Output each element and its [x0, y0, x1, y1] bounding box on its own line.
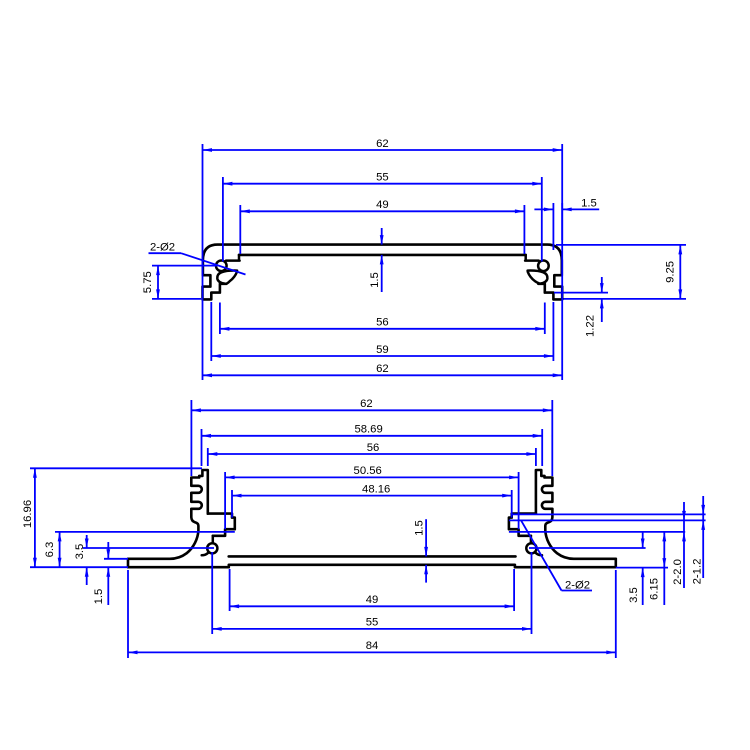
bottom profile right boss staircase: [509, 514, 536, 536]
top profile outer outline: [203, 245, 563, 300]
top profile left screw hole (2-Ø2): [216, 261, 227, 272]
svg-text:49: 49: [376, 199, 389, 211]
svg-text:84: 84: [366, 640, 379, 652]
dim 62 top: [203, 149, 563, 151]
dim 50.56: [225, 476, 518, 478]
svg-text:50.56: 50.56: [354, 465, 382, 477]
label 2-Ø2 bottom leader: [521, 520, 562, 590]
bottom profile left boss staircase: [208, 514, 235, 536]
svg-text:62: 62: [360, 398, 373, 410]
dim 50.56 ext: [224, 472, 226, 529]
dim 9.25 right: [679, 245, 681, 299]
svg-text:55: 55: [376, 172, 389, 184]
svg-text:2-1.2: 2-1.2: [692, 559, 704, 585]
svg-text:6.3: 6.3: [44, 542, 56, 558]
dim 5.75 left: [157, 266, 159, 299]
dim 2-2.0 right: [683, 502, 685, 588]
dim 1.5 plate: [381, 228, 383, 245]
dim 2-2.0 ext: [509, 519, 706, 521]
dim 55 top: [223, 183, 542, 185]
svg-text:9.25: 9.25: [665, 261, 677, 283]
svg-text:2-2.0: 2-2.0: [672, 559, 684, 585]
svg-text:6.15: 6.15: [649, 578, 661, 600]
top profile right screw hole (2-Ø2): [538, 261, 549, 272]
svg-text:58.69: 58.69: [354, 424, 382, 436]
dim 3.5 right: [642, 532, 644, 548]
svg-text:2-Ø2: 2-Ø2: [150, 242, 175, 254]
bottom profile base bottom: [128, 565, 616, 567]
svg-text:3.5: 3.5: [74, 544, 86, 560]
dim 1.5 wall right: [534, 208, 553, 210]
dim 62 top extension lines: [202, 144, 204, 380]
dim 56 top-view: [220, 328, 545, 330]
svg-text:1.5: 1.5: [93, 589, 105, 605]
dim 1.5 flange ext: [104, 558, 128, 560]
dim 16.96: [34, 468, 36, 567]
dim 3.5 left: [86, 535, 88, 548]
bottom profile left wall: [128, 470, 208, 559]
bottom profile right flange end: [614, 559, 617, 567]
dim 56 bottom-view: [208, 453, 536, 455]
dim 84: [128, 651, 616, 653]
dim 49 bottom-view: [230, 605, 514, 607]
svg-text:1.5: 1.5: [413, 520, 425, 536]
dim 1.5 wall extension lines: [552, 203, 554, 250]
dim 48.16: [232, 495, 512, 497]
bottom profile left screw curl (2-Ø2): [212, 536, 215, 543]
dim 49 bottom-view ext: [229, 569, 231, 611]
svg-text:62: 62: [376, 363, 389, 375]
dim 62 bottom-view: [191, 409, 552, 411]
dim 16.96 ext: [30, 467, 202, 469]
top profile plate inner surface: [239, 254, 526, 257]
dim 2-1.2 ext: [512, 513, 706, 515]
svg-text:1.5: 1.5: [369, 272, 381, 288]
dim 3.5 right ext line: [529, 547, 646, 549]
svg-text:48.16: 48.16: [362, 483, 390, 495]
svg-text:55: 55: [366, 617, 379, 629]
dim 59 top-view: [211, 355, 553, 357]
svg-text:16.96: 16.96: [22, 500, 34, 528]
svg-text:56: 56: [367, 442, 380, 454]
dim 59 extension lines: [210, 302, 212, 361]
bottom profile right screw curl (2-Ø2): [530, 536, 533, 543]
dim 6.3: [59, 532, 61, 567]
dim 3.5 left ext: [83, 547, 214, 549]
dim 56 extension lines: [219, 303, 221, 335]
svg-text:5.75: 5.75: [142, 271, 154, 293]
dim 2-1.2 right: [702, 496, 704, 578]
dim 6.15 right: [663, 568, 665, 605]
svg-text:56: 56: [376, 317, 389, 329]
dim 55 bottom-view ext: [211, 552, 213, 634]
top profile left jaw hook: [217, 271, 237, 284]
top profile right jaw hook: [528, 271, 548, 284]
bottom profile web top: [229, 555, 516, 558]
dim 48.16 ext: [231, 490, 233, 518]
bottom profile left flange end: [127, 559, 130, 567]
dim 6.15 ext (right): [509, 531, 685, 533]
label 2-Ø2 top leader: [149, 252, 182, 254]
dim 3.5 right ext: [616, 567, 668, 569]
svg-text:1.5: 1.5: [581, 197, 597, 209]
svg-text:3.5: 3.5: [628, 587, 640, 603]
dim 84 ext: [127, 570, 129, 658]
dim 62 bottom top-view: [203, 374, 563, 376]
svg-text:62: 62: [376, 138, 389, 150]
svg-text:59: 59: [376, 344, 389, 356]
dim 56 bottom-view ext: [207, 448, 209, 466]
dim 6.3 ext (left): [55, 531, 235, 533]
dim 58.69: [202, 435, 543, 437]
svg-text:49: 49: [366, 594, 379, 606]
dim 62 bottom-view ext: [190, 400, 192, 476]
dim 49 top: [240, 210, 524, 212]
dim 1.22 right: [601, 277, 603, 293]
dim 49 top extension lines: [239, 205, 241, 254]
dim 55 bottom-view: [212, 628, 531, 630]
dim 58.69 ext: [201, 429, 203, 466]
svg-text:1.22: 1.22: [585, 315, 597, 337]
dim 55 top extension lines: [222, 177, 224, 262]
top profile right boss step and shelf: [525, 255, 539, 261]
bottom profile right wall: [536, 470, 616, 559]
dim 1.22 extension line: [554, 292, 608, 294]
dim 1.5 flange: [107, 542, 109, 559]
svg-text:2-Ø2: 2-Ø2: [565, 579, 590, 591]
top profile left boss step and shelf: [226, 255, 240, 261]
dim 9.25 extension lines: [556, 244, 686, 246]
dim 5.75 extension lines: [152, 265, 217, 267]
dim 1.5 web: [425, 519, 427, 556]
